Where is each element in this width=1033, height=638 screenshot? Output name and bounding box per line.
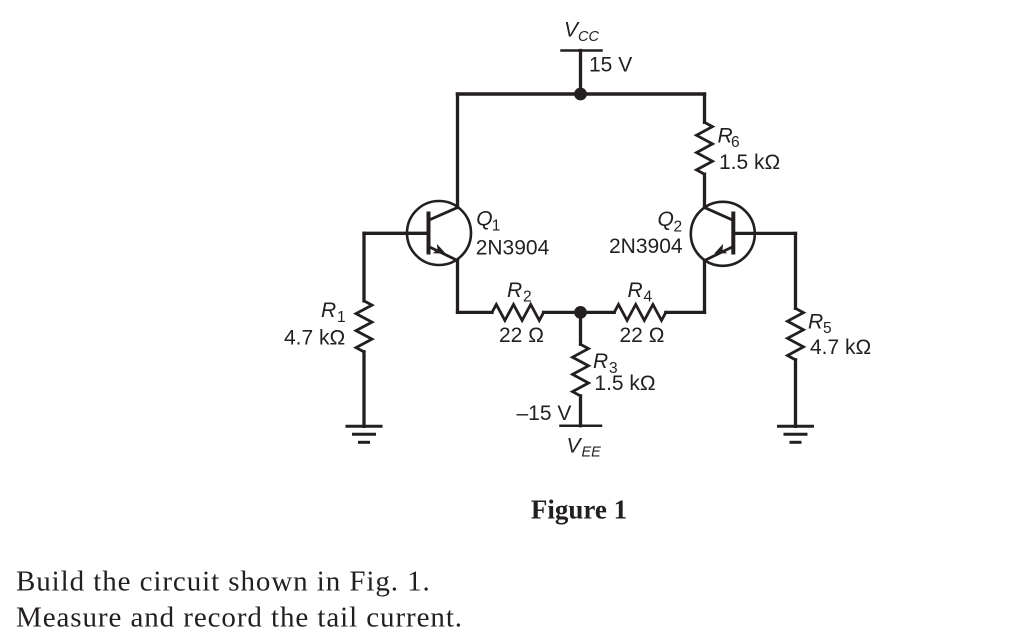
svg-text:22 Ω: 22 Ω xyxy=(499,324,544,347)
svg-text:R: R xyxy=(628,279,643,302)
svg-text:1.5 kΩ: 1.5 kΩ xyxy=(594,372,655,395)
svg-text:V: V xyxy=(567,435,583,458)
svg-text:5: 5 xyxy=(823,320,832,337)
svg-text:R: R xyxy=(507,279,522,302)
svg-text:15 V: 15 V xyxy=(589,54,632,77)
svg-text:Q: Q xyxy=(476,208,492,231)
svg-text:Figure 1: Figure 1 xyxy=(531,495,627,525)
svg-text:1: 1 xyxy=(337,309,346,326)
svg-text:Build the circuit shown in Fig: Build the circuit shown in Fig. 1. xyxy=(16,566,431,598)
svg-text:22 Ω: 22 Ω xyxy=(620,324,665,347)
svg-text:6: 6 xyxy=(731,134,740,151)
svg-text:2N3904: 2N3904 xyxy=(609,235,683,258)
svg-text:Q: Q xyxy=(658,208,674,231)
svg-text:4: 4 xyxy=(644,289,653,306)
svg-text:4.7 kΩ: 4.7 kΩ xyxy=(284,327,345,350)
svg-text:1.5 kΩ: 1.5 kΩ xyxy=(719,151,780,174)
svg-text:1: 1 xyxy=(492,218,501,235)
svg-text:2: 2 xyxy=(523,289,532,306)
svg-text:4.7 kΩ: 4.7 kΩ xyxy=(810,336,871,359)
svg-text:CC: CC xyxy=(578,29,599,45)
svg-text:R: R xyxy=(808,311,823,334)
svg-text:Measure and record the tail cu: Measure and record the tail current. xyxy=(16,602,463,634)
svg-text:–15 V: –15 V xyxy=(517,402,572,425)
svg-text:EE: EE xyxy=(582,445,602,461)
svg-text:R: R xyxy=(593,350,608,373)
svg-text:R: R xyxy=(321,299,336,322)
svg-text:2: 2 xyxy=(674,219,683,236)
svg-text:2N3904: 2N3904 xyxy=(476,237,550,260)
